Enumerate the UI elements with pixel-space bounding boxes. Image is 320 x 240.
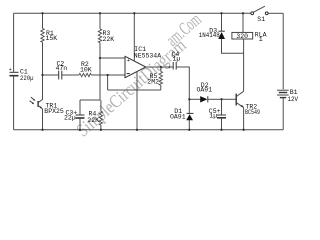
switch S1 lever bbox=[254, 6, 265, 12]
wire TR1 collector bbox=[38, 75, 42, 102]
svg-text:OA91: OA91 bbox=[197, 87, 213, 94]
node dot detector bbox=[188, 98, 190, 100]
svg-text:2M2: 2M2 bbox=[147, 78, 159, 85]
wire feedback bottom bbox=[108, 89, 161, 91]
wire D3 top lead bbox=[221, 13, 223, 31]
wire right rail upper bbox=[282, 13, 284, 89]
op-amp IC1 bbox=[125, 56, 146, 77]
svg-text:1N4148: 1N4148 bbox=[199, 32, 220, 39]
wire D3 anode to collector line bbox=[222, 39, 244, 54]
node dot bias top bbox=[99, 12, 101, 14]
resistor R2 bbox=[79, 73, 92, 76]
svg-text:1: 1 bbox=[259, 36, 263, 43]
wire C5 bottom lead bbox=[221, 118, 223, 130]
wire C3 top lead bbox=[79, 100, 81, 115]
wire D2 anode lead bbox=[189, 98, 200, 100]
resistor R5 bbox=[159, 71, 162, 85]
wire top rail bbox=[14, 12, 251, 14]
svg-text:BC549: BC549 bbox=[245, 109, 260, 116]
node dot R1 top bbox=[41, 12, 43, 14]
transistor TR1 bbox=[37, 101, 39, 107]
wire IC1 supply pin bbox=[133, 13, 135, 61]
wire bias line from top rail bbox=[99, 13, 101, 28]
svg-text:22K: 22K bbox=[87, 117, 99, 124]
wire TR2 collector up to relay bbox=[243, 39, 245, 91]
diode D2 bbox=[200, 96, 207, 102]
svg-text:22µ: 22µ bbox=[64, 115, 76, 122]
wire R4 top lead bbox=[100, 100, 102, 111]
wire right rail lower bbox=[282, 98, 284, 130]
node dot C5 ground bbox=[220, 129, 222, 131]
svg-text:12V: 12V bbox=[288, 96, 299, 103]
wire D2 cathode to node bbox=[208, 98, 222, 100]
svg-text:B1: B1 bbox=[290, 89, 298, 96]
wire left rail lower bbox=[13, 76, 15, 130]
node dot A bbox=[41, 74, 43, 76]
wire R4 bottom lead bbox=[100, 125, 102, 130]
watermark bbox=[73, 10, 206, 142]
relay coil RLA bbox=[232, 32, 253, 39]
svg-text:NE5534A: NE5534A bbox=[134, 52, 161, 59]
node dot TR1 emitter ground bbox=[41, 129, 43, 131]
node dot IC ground bbox=[136, 129, 138, 131]
resistor R4 bbox=[99, 111, 102, 125]
wire R5 top lead bbox=[160, 67, 162, 71]
wire R2 to inverting input bbox=[92, 74, 126, 76]
wire left rail upper bbox=[13, 13, 15, 72]
resistor R1 bbox=[41, 28, 44, 42]
battery B1 bbox=[277, 90, 289, 97]
wire R5 bottom lead bbox=[160, 85, 162, 90]
svg-text:S1: S1 bbox=[257, 16, 265, 23]
svg-text:1µ: 1µ bbox=[209, 113, 217, 120]
capacitor C1 bbox=[10, 72, 19, 75]
svg-text:1µ: 1µ bbox=[173, 55, 181, 62]
TR1 emitter arrow bbox=[40, 106, 43, 108]
wire relay top lead bbox=[242, 13, 244, 32]
capacitor C3 bbox=[76, 115, 85, 118]
node dot D1 ground bbox=[188, 129, 190, 131]
node dot R4 ground bbox=[100, 129, 102, 131]
wire bottom rail bbox=[14, 129, 284, 131]
wire IC1 output bbox=[146, 66, 173, 68]
TR2 emitter arrow bbox=[241, 105, 244, 108]
wire R1 top lead bbox=[42, 13, 44, 28]
wire C3 bottom lead bbox=[79, 118, 81, 130]
wire TR2 emitter down bbox=[243, 107, 245, 129]
wire D1 top lead bbox=[188, 99, 190, 113]
wire top rail right of S1 bbox=[268, 12, 283, 14]
switch S1 contacts bbox=[251, 12, 254, 15]
capacitor C4 bbox=[173, 62, 176, 70]
wire C3 R4 node bbox=[80, 99, 100, 101]
resistor R3 bbox=[98, 29, 101, 43]
capacitor C2 bbox=[59, 71, 62, 80]
wire node A to C2 bbox=[43, 74, 59, 76]
wire C2 to R2 bbox=[62, 74, 79, 76]
node dot C3 ground bbox=[79, 129, 81, 131]
wire C5 top lead bbox=[221, 99, 223, 114]
diode D3 bbox=[218, 30, 224, 32]
node dot output bbox=[160, 66, 162, 68]
diode D1 bbox=[187, 112, 194, 114]
node dot IC supply top bbox=[133, 12, 135, 14]
TR1 light arrows bbox=[31, 97, 35, 100]
transistor TR2 bbox=[235, 94, 237, 106]
svg-text:220µ: 220µ bbox=[20, 75, 34, 82]
svg-text:15K: 15K bbox=[46, 35, 58, 42]
capacitor C5 bbox=[217, 115, 226, 118]
node dot C5 base bbox=[220, 98, 222, 100]
node dot plus input bbox=[99, 57, 101, 59]
svg-text:320: 320 bbox=[236, 33, 248, 40]
wire TR2 base bbox=[222, 98, 237, 100]
node dot D3 top bbox=[220, 12, 222, 14]
op-amp minus mark bbox=[127, 73, 130, 75]
wire R3 bottom down bias line bbox=[99, 43, 101, 100]
node dot relay top bbox=[242, 12, 244, 14]
wire IC1 ground pin bbox=[136, 72, 138, 130]
wire C4 to corner down to detector node bbox=[176, 67, 189, 99]
svg-text:+: + bbox=[168, 65, 171, 71]
svg-text:22K: 22K bbox=[103, 36, 115, 43]
node dot TR2 emitter ground bbox=[242, 129, 244, 131]
wire D1 bottom lead bbox=[188, 120, 190, 130]
wire feedback drop bbox=[107, 75, 109, 90]
node dot feedback bbox=[106, 74, 108, 76]
svg-text:10K: 10K bbox=[80, 66, 92, 73]
wire non-inverting input bbox=[100, 57, 125, 59]
svg-text:47n: 47n bbox=[56, 65, 68, 72]
wire R1 bottom to node A bbox=[42, 42, 44, 75]
svg-text:+: + bbox=[127, 57, 130, 64]
svg-text:OA91: OA91 bbox=[170, 113, 186, 120]
svg-text:BPX25: BPX25 bbox=[44, 108, 64, 115]
svg-text:+: + bbox=[9, 67, 12, 73]
